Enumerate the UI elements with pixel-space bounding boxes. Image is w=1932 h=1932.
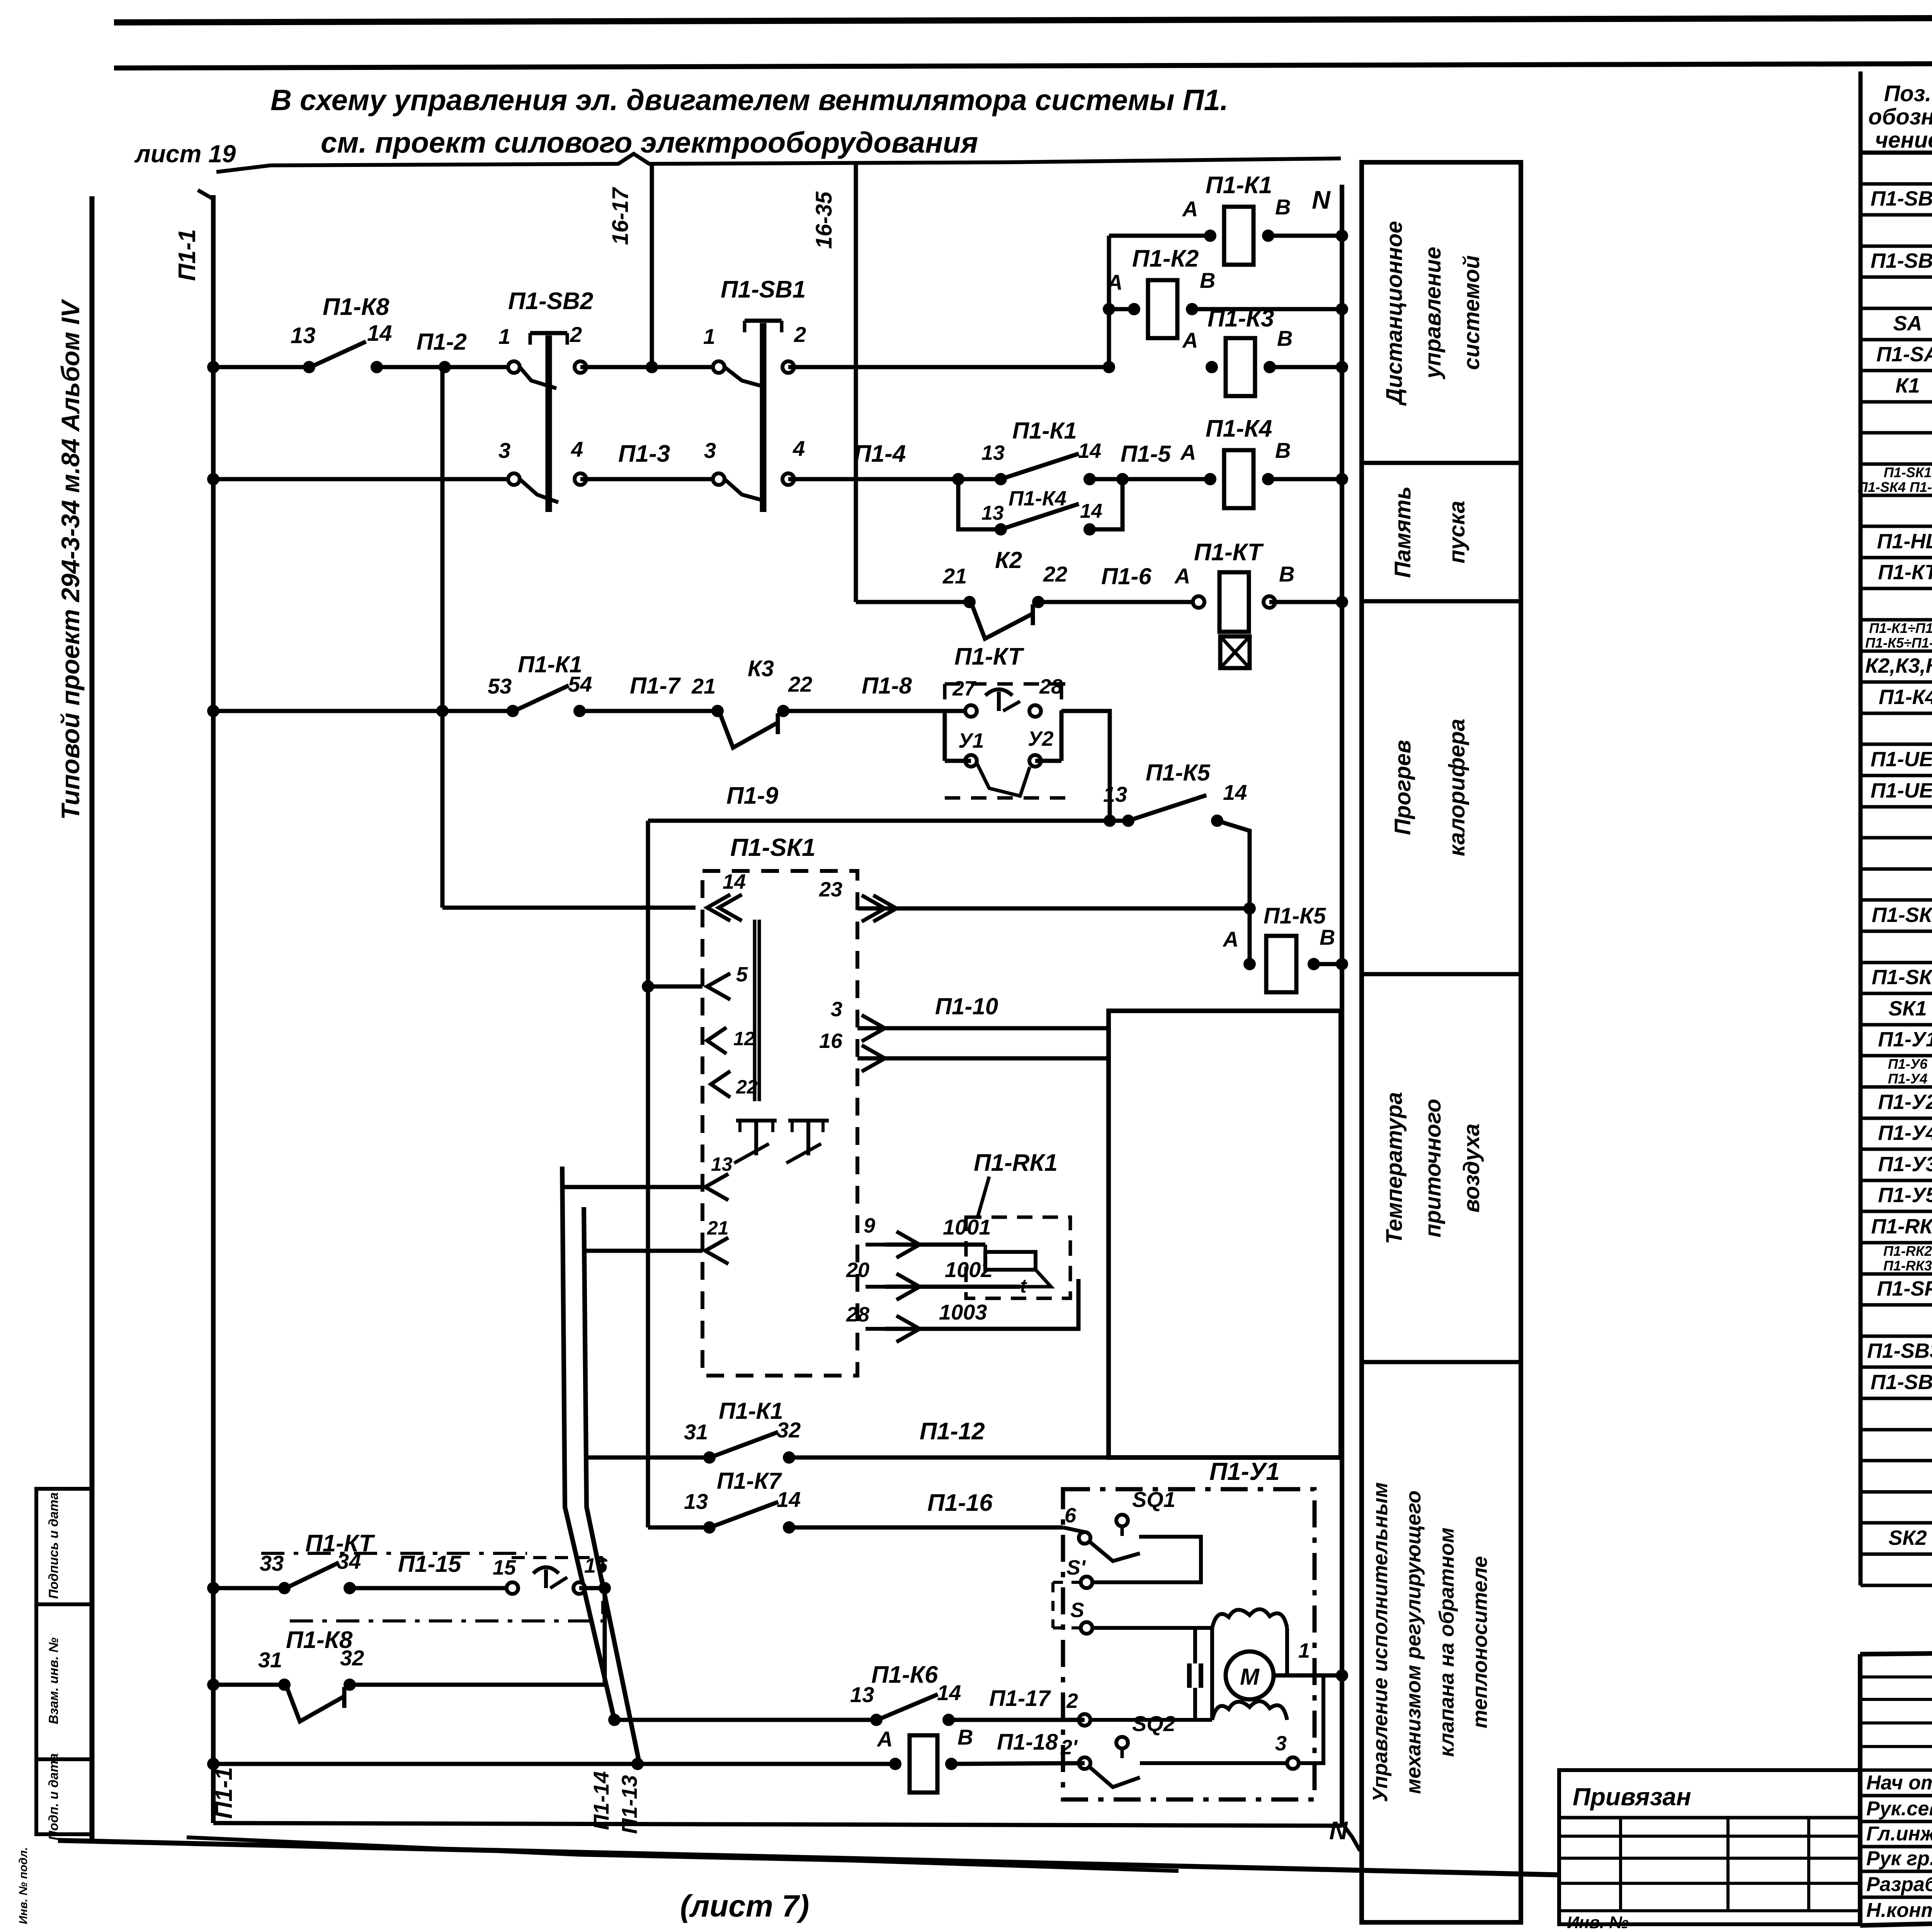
wire rung1 SB2 to SB1 [580,365,719,369]
wire П1-16 [789,1526,1063,1530]
coil on П1-18 rung [910,1735,937,1793]
coil П1-К2 wire to N [1192,307,1342,311]
svg-text:теплоносителе: теплоносителе [1468,1556,1492,1728]
table row line 43 [1861,1521,1932,1525]
svg-text:14: 14 [937,1680,961,1705]
SК1 pin 21 chevron [705,1238,728,1264]
svg-text:клапана на обратном: клапана на обратном [1435,1527,1458,1757]
svg-text:53: 53 [488,674,512,698]
svg-text:К2: К2 [995,547,1022,573]
title block bottom border [1860,1904,1932,1925]
svg-text:SQ1: SQ1 [1132,1487,1175,1512]
SК1 pin 22 stub [711,1071,730,1097]
wire К5 contact to coil riser [1217,821,1250,964]
mech link dashes S S-prime [1051,1582,1054,1628]
wire pin3 up to node 1 [1299,1675,1323,1763]
SК1 internal plunger [753,920,757,1101]
svg-text:28: 28 [1039,675,1063,698]
binding box header line [1559,1816,1860,1820]
svg-text:П1-У3: П1-У3 [1878,1153,1932,1176]
У1 S-prime terminal [1081,1577,1092,1588]
coil branch stem vertical [1107,236,1111,367]
svg-text:2': 2' [1060,1736,1078,1759]
svg-text:1003: 1003 [939,1300,987,1324]
node П1-2 [439,361,451,373]
svg-text:А: А [1182,328,1198,352]
contact Y1-Y2 row [965,755,977,767]
coil П1-К1 terminals [1204,230,1216,242]
svg-text:воздуха: воздуха [1459,1124,1484,1213]
svg-text:П1-3: П1-3 [618,440,670,467]
wire SQ2 to pin 3 [1140,1761,1293,1765]
svg-text:14: 14 [1080,500,1102,522]
coil П1-К1 wire to N [1268,234,1342,238]
svg-text:П1-SB1: П1-SB1 [721,276,806,303]
table row line 23 [1861,898,1932,902]
svg-text:П1-К5: П1-К5 [1146,760,1211,786]
svg-text:5: 5 [736,963,748,986]
motor terminal 1 wire to N [1274,1673,1342,1678]
wire П1-12 to unit box [789,1456,1109,1460]
binding box rows [1559,1835,1860,1838]
svg-text:S': S' [1066,1556,1086,1579]
table row line 40 [1861,1428,1932,1432]
svg-text:А: А [876,1727,893,1751]
node П1-9 from КТ block [1104,815,1116,827]
motor M circle [1226,1651,1274,1699]
svg-text:23: 23 [819,878,842,901]
table row line 11 [1861,525,1932,528]
vertical П1-9 left riser [646,821,650,1527]
wire П1-17 [949,1718,1085,1722]
table row line 17 [1861,712,1932,715]
svg-text:П1-HL: П1-HL [1877,530,1932,553]
table row line 32 [1861,1179,1932,1182]
КТ rung dash-dot bracket upper [261,1552,527,1555]
svg-text:6: 6 [1065,1504,1077,1527]
П1-КТ block right vertical [1060,711,1064,761]
svg-text:Поз.: Поз. [1884,81,1932,106]
actuator П1-У1 dash-dot box [1063,1489,1315,1799]
svg-text:Нач отд: Нач отд [1866,1772,1932,1794]
svg-text:К2,К3,К4: К2,К3,К4 [1865,654,1932,677]
wire П1-4 [788,477,1001,481]
table row line 31 [1861,1148,1932,1151]
wire П1-6 [1038,600,1199,604]
svg-text:П1-18: П1-18 [997,1730,1058,1755]
wire П1-5 [1090,477,1210,481]
svg-text:В: В [1277,326,1293,350]
svg-text:П1-К6: П1-К6 [871,1662,938,1688]
svg-text:П1-10: П1-10 [935,993,998,1019]
SК1 pin 23 chevron [862,895,885,922]
svg-text:2: 2 [570,322,582,347]
limit switch SQ1 [1116,1515,1128,1526]
svg-text:А: А [1182,197,1198,221]
node coil branch stem [1103,361,1115,373]
title block top border [1860,1645,1932,1654]
wire from П1-1 to coil A [213,1762,895,1766]
table row line 24 [1861,930,1932,933]
wire 1002 with chevron 20 [885,1285,1020,1289]
SК1 pin 5 wire [648,985,702,989]
band divider 4 [1362,1360,1521,1364]
table row line 42 [1861,1490,1932,1494]
svg-text:13: 13 [1103,782,1127,806]
coil П1-К4 wire to N [1268,477,1342,481]
time contact 15-16 [507,1582,518,1594]
У1 pin 3 [1287,1757,1299,1769]
button П1-SB2 contact 3-4 rung2 [508,473,520,485]
wire coil П1-К2 row [1109,307,1134,311]
svg-text:П1-КТ: П1-КТ [1878,561,1932,584]
svg-text:П1-КТ: П1-КТ [1194,539,1264,566]
table row line 26 [1861,992,1932,995]
svg-text:П1-1: П1-1 [211,1767,237,1819]
svg-text:16-35: 16-35 [811,191,837,249]
svg-text:приточного: приточного [1420,1099,1446,1238]
coil П1-К3 wire to N [1270,365,1342,369]
wire К7 from riser [648,1526,709,1530]
resistor element [985,1252,1036,1270]
SК1 pin 12 stub [707,1027,726,1054]
SК1 pin 3 chevron [862,1015,885,1041]
svg-text:4: 4 [571,437,583,461]
svg-text:Инв. №: Инв. № [1567,1913,1629,1932]
svg-text:механизмом регулирующего: механизмом регулирующего [1402,1490,1425,1794]
svg-text:П1-К1: П1-К1 [518,651,582,677]
motor winding bottom [1212,1701,1287,1720]
coil П1-К4 [1224,450,1253,508]
svg-text:13: 13 [981,502,1004,524]
svg-text:Взам. инв. №: Взам. инв. № [46,1638,61,1725]
table row line 45 [1861,1584,1932,1587]
left margin stamp box column [36,1489,92,1834]
sensor П1-RК1 dashed box [966,1217,1070,1298]
title block signature area rows [1860,1769,1932,1772]
node П1-13 bottom [631,1758,644,1770]
svg-text:SК2: SК2 [1888,1526,1927,1549]
svg-text:П1-КТ: П1-КТ [954,643,1025,670]
table row line 15 [1861,650,1932,653]
svg-text:М: М [1240,1664,1260,1690]
table row line 16 [1861,680,1932,684]
svg-text:А: А [1106,270,1122,294]
svg-text:П1-К4: П1-К4 [1206,415,1272,442]
wire П1-9 [648,819,1128,823]
controller П1-SК1 dashed box [702,871,857,1376]
button П1-SB2 contact 1-2 rung1 [508,361,520,373]
svg-text:П1-SB2: П1-SB2 [508,288,593,315]
svg-text:П1-1: П1-1 [174,229,201,281]
vertical П1-2 branch [440,367,445,908]
svg-text:3: 3 [498,438,510,463]
table row line 1 [1861,213,1932,217]
coil П1-К5 [1266,936,1296,992]
svg-text:Память: Память [1390,486,1415,578]
table row line 0 [1861,182,1932,186]
SК1 internal T contact 1 [736,1119,777,1122]
table row line 9 [1861,463,1932,466]
table row line 2 [1861,245,1932,248]
svg-text:16: 16 [819,1029,843,1053]
svg-text:П1-SВ3-: П1-SВ3- [1867,1339,1932,1362]
sheet frame bottom border [58,1840,1558,1875]
table row line 20 [1861,805,1932,809]
svg-text:П1-К1÷П1-К: П1-К1÷П1-К [1869,620,1932,636]
table row line 4 [1861,307,1932,310]
SК1 pin 13 wire [562,1185,702,1189]
svg-text:П1-SВ8: П1-SВ8 [1871,1371,1932,1394]
sheet frame left margin line [90,196,95,1839]
resistor connection 1001 [984,1245,987,1252]
table row line 10 [1861,494,1932,497]
svg-text:Инв. № подл.: Инв. № подл. [17,1847,30,1924]
contact П1-К7 13-14 [703,1521,716,1534]
svg-text:3: 3 [831,998,842,1021]
wire 1001 with chevron 9 [885,1243,985,1247]
table row line 25 [1861,961,1932,964]
svg-text:обозна: обозна [1868,104,1932,129]
У1 pin 6 [1079,1532,1090,1544]
svg-text:П1-К8: П1-К8 [323,294,389,320]
svg-text:15: 15 [493,1556,516,1579]
SК1 pin 23 wire [857,906,1250,911]
svg-text:В: В [957,1725,973,1749]
svg-text:t: t [1020,1275,1027,1297]
wire after 16 with stub [579,1588,605,1685]
svg-text:П1-У1: П1-У1 [1878,1028,1932,1051]
svg-text:27: 27 [952,677,977,700]
wire 1003 with chevron 28 [885,1279,1078,1329]
table row line 6 [1861,369,1932,372]
band divider 1 [1362,461,1521,465]
svg-text:13: 13 [291,323,316,348]
riser 16-35 [854,162,858,602]
table outer verticals [1859,71,1863,1585]
table row line 12 [1861,556,1932,560]
svg-text:В: В [1320,925,1335,949]
svg-text:14: 14 [367,321,392,346]
wire КТ rung from П1-1 [213,1586,284,1590]
coil П1-К1 [1224,207,1253,265]
svg-text:31: 31 [258,1648,282,1672]
table row line 36 [1861,1303,1932,1307]
svg-text:П1-RК1: П1-RК1 [1871,1215,1932,1238]
svg-text:А: А [1222,927,1238,951]
svg-text:S: S [1070,1599,1084,1622]
svg-text:П1-К4: П1-К4 [1009,487,1066,510]
П1-КТ block left vertical [943,711,947,761]
svg-text:22: 22 [1043,562,1067,586]
svg-text:В: В [1275,438,1291,463]
title block left border [1858,1654,1862,1925]
contact К2 21-22 (NC) [963,596,976,608]
unit box (balance relay) [1109,1011,1341,1458]
wire pin 16 to unit [857,1056,1109,1061]
svg-text:П1-4: П1-4 [854,440,906,467]
wire П1-8 [783,709,971,713]
table row line 5 [1861,338,1932,342]
svg-text:управление: управление [1420,247,1446,380]
coil П1-К2 terminals [1128,303,1140,315]
riser 16-17 [650,162,654,367]
svg-text:Привязан: Привязан [1573,1783,1691,1811]
SК1 internal T contact 2 [788,1119,829,1122]
svg-text:Типовой проект 294-3-34 м.84: Типовой проект 294-3-34 м.84 Альбом IV [56,299,85,820]
wire К6 rung from П1-14 [614,1718,876,1722]
wire П1-15 [350,1586,512,1590]
svg-text:13: 13 [711,1153,733,1175]
title block upper grid rows [1860,1675,1932,1679]
svg-text:П1-SК4 П1-SК5: П1-SК4 П1-SК5 [1858,479,1932,495]
contact П1-К8 13-14 [303,361,315,373]
svg-text:В схему управления эл. двигат: В схему управления эл. двигателем вентил… [270,84,1228,117]
svg-text:22: 22 [788,672,812,696]
svg-text:2: 2 [794,322,806,347]
bottom return wire to N [213,1823,1342,1826]
svg-text:П1-У5: П1-У5 [1878,1184,1932,1207]
contact П1-КТ 33-34 [278,1582,291,1594]
svg-text:Гл.инжен: Гл.инжен [1866,1823,1932,1845]
svg-text:П1-SК1: П1-SК1 [730,833,816,861]
svg-text:3: 3 [704,438,716,463]
svg-text:П1-SК3: П1-SК3 [1872,966,1932,989]
table row line 35 [1861,1272,1932,1276]
КТ rung dash-dot bracket lower [290,1619,603,1622]
КТ rung dash box around 15-16 [512,1556,603,1559]
motor winding top [1212,1609,1287,1628]
wire П1-3 [580,477,719,481]
svg-text:П1-SB1: П1-SB1 [1871,187,1932,210]
svg-text:SQ2: SQ2 [1132,1711,1175,1736]
band divider 2 [1362,599,1521,604]
svg-text:28: 28 [846,1303,869,1326]
svg-text:У2: У2 [1028,727,1054,750]
svg-text:системой: системой [1459,255,1484,370]
svg-text:13: 13 [850,1682,874,1707]
svg-text:Управление исполнительным: Управление исполнительным [1369,1482,1392,1802]
SК1 pin 14 chevron [707,895,730,921]
svg-text:П1-2: П1-2 [417,329,467,355]
button П1-SB1 contact 1-2 rung1 [713,361,724,373]
svg-text:Н.контр: Н.контр [1866,1899,1932,1922]
wire П1-18 [951,1763,1085,1764]
table row line 29 [1861,1085,1932,1089]
svg-text:Разраб: Разраб [1866,1873,1932,1896]
wire К8 rung from П1-1 [213,1683,284,1687]
coil П1-К2 [1148,280,1177,338]
resistor diagonal tail [1020,1270,1051,1287]
sheet frame top border line 1 [114,16,1932,22]
note underline bracket [216,154,1341,172]
wire pin2 to motor bottom [1090,1718,1212,1722]
svg-text:П1-У4: П1-У4 [1878,1121,1932,1145]
svg-text:N: N [1312,185,1331,214]
table row line 38 [1861,1366,1932,1369]
svg-text:Подп. и дата: Подп. и дата [46,1753,61,1840]
table row line 14 [1861,618,1932,622]
svg-text:П1-UЕ2: П1-UЕ2 [1871,779,1932,802]
table row line 30 [1861,1117,1932,1120]
svg-text:П1-К8: П1-К8 [286,1627,353,1653]
svg-text:20: 20 [846,1259,869,1282]
bottom sheet bracket (лист 7) [187,1837,1179,1871]
wire П1-2 branch to SК1 pin 14 [442,906,696,910]
svg-text:П1-SР: П1-SР [1877,1277,1932,1300]
table row line 33 [1861,1210,1932,1213]
vertical П1-14 [562,1167,614,1720]
contact К3 21-22 (NC) [711,705,724,717]
svg-text:калорифера: калорифера [1444,719,1469,856]
svg-text:П1-У2: П1-У2 [1878,1090,1932,1114]
svg-text:П1-SA: П1-SA [1876,343,1932,366]
contact П1-К8 31-32 (NC) [278,1679,291,1691]
table row line 44 [1861,1553,1932,1556]
table row line 3 [1861,276,1932,279]
table row line 28 [1861,1054,1932,1058]
svg-text:П1-SК2: П1-SК2 [1872,903,1932,927]
wire П1-10 [857,1026,1109,1031]
svg-text:П1-SB2: П1-SB2 [1871,249,1932,272]
table row line 27 [1861,1023,1932,1027]
svg-text:У1: У1 [958,729,984,752]
time contact П1-КТ 27-28 dashed box [945,682,1070,686]
wire rung2 from П1-1 [213,477,514,481]
svg-text:П1-К7: П1-К7 [717,1468,782,1494]
wire SQ1 loop [1092,1537,1201,1582]
svg-text:П1-К5÷П1-К6: П1-К5÷П1-К6 [1865,635,1932,651]
button П1-SB2 plunger [546,335,549,512]
svg-text:П1-7: П1-7 [630,673,681,699]
wire К8 rung to stub [350,1683,605,1687]
svg-text:3: 3 [1275,1732,1287,1755]
svg-text:(лист 7): (лист 7) [680,1889,809,1923]
coil П1-К5 terminals [1243,958,1256,970]
svg-text:1: 1 [1298,1639,1310,1662]
svg-text:П1-12: П1-12 [920,1418,985,1445]
table row line 41 [1861,1459,1932,1463]
svg-text:Подпись и дата: Подпись и дата [46,1492,61,1599]
svg-text:16-17: 16-17 [608,187,633,245]
svg-text:П1-9: П1-9 [726,782,779,809]
wire П1-7 [580,709,718,713]
sensor П1-RК1 leader line [978,1177,989,1217]
У1 S terminal [1081,1622,1092,1634]
coil П1-К3 on rung1 [1226,338,1255,396]
wire rung4 from П1-1 [213,709,513,713]
svg-text:13: 13 [981,441,1005,464]
svg-text:14: 14 [1223,780,1247,804]
svg-text:Рук гр.: Рук гр. [1866,1847,1932,1870]
svg-text:1: 1 [703,324,715,349]
svg-text:П1-К2: П1-К2 [1132,245,1199,272]
svg-text:Дистанционное: Дистанционное [1382,221,1407,406]
table row line 39 [1861,1397,1932,1400]
wire S to motor [1092,1626,1212,1630]
SК1 pin 13 chevron [705,1174,728,1200]
У1 pin 2prime [1079,1757,1090,1769]
coil П1-18 terminals [889,1758,901,1770]
svg-text:П1-15: П1-15 [398,1551,462,1577]
rail N bottom hook [1342,1823,1360,1851]
node rung1 riser 16-17 [646,361,658,373]
SК1 pin 21 wire [584,1249,702,1253]
svg-text:П1-6: П1-6 [1101,563,1152,589]
coil П1-КТ time box with X [1220,636,1250,668]
wire coil П1-К1 row [1109,234,1210,238]
svg-text:П1-К3: П1-К3 [1207,305,1274,332]
